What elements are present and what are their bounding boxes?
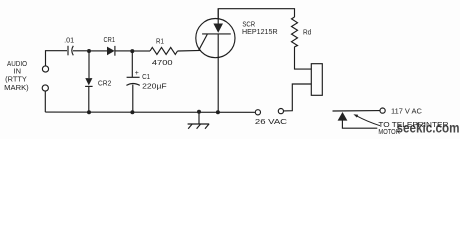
node: TO TELEPRINTER MOTOR label [378, 122, 448, 136]
junction node C1 bottom [130, 110, 134, 114]
junction node at CR2 top [87, 49, 91, 53]
resistor R1 [150, 38, 178, 67]
svg-text:MARK): MARK) [4, 85, 28, 92]
svg-text:R1: R1 [156, 38, 164, 45]
capacitor C1 220uF [126, 51, 166, 112]
svg-text:Rd: Rd [303, 27, 311, 36]
svg-text:117 V AC: 117 V AC [391, 108, 422, 115]
wire: CR2 node to CR1 [91, 50, 107, 52]
svg-text:CR2: CR2 [98, 80, 112, 87]
diode CR2 [85, 51, 111, 112]
resistor Rd [292, 17, 312, 47]
wire: plug bottom prong to 26VAC right terminal [284, 84, 312, 111]
diode CR1 [104, 37, 116, 56]
junction node at C1 top [130, 49, 134, 53]
node: audio input label [4, 61, 28, 92]
terminal: 26 VAC right [278, 109, 283, 114]
terminal: 26 VAC left [255, 110, 260, 115]
svg-text:4700: 4700 [152, 58, 173, 67]
ground symbol [188, 112, 210, 129]
svg-text:IN: IN [14, 68, 22, 75]
wire: SCR anode top to Rd [218, 9, 294, 19]
wire: 117VAC line [333, 110, 381, 112]
arrow: thin leader to wire [353, 114, 380, 125]
connector plug body [311, 64, 322, 96]
wire: Rd to plug top prong [295, 47, 312, 69]
svg-text:AUDIO: AUDIO [7, 61, 27, 68]
SCR U1 HEP1215R [196, 9, 278, 112]
terminal: 117 VAC [380, 108, 385, 113]
svg-text:seekic.com: seekic.com [397, 121, 460, 136]
wire: input top to capacitor [46, 51, 68, 66]
svg-text:HEP1215R: HEP1215R [242, 27, 278, 36]
wire: capacitor to CR2 node [73, 50, 87, 52]
arrow: to teleprinter motor (filled) [338, 112, 378, 128]
wire: CR1 to C1 node [115, 50, 131, 52]
wire: C1 node to R1 [134, 50, 150, 52]
svg-text:(RTTY: (RTTY [5, 77, 27, 84]
capacitor C2 value .01 [64, 37, 74, 55]
svg-text:CR1: CR1 [104, 37, 116, 44]
ground bus wire [45, 111, 255, 113]
svg-text:C1: C1 [142, 74, 150, 81]
wire: R1 to SCR gate [178, 49, 202, 52]
junction node ground tap [197, 110, 201, 114]
junction node SCR cathode bottom [216, 110, 220, 114]
svg-text:.01: .01 [64, 37, 74, 44]
terminal: audio input bottom [42, 85, 48, 91]
svg-text:+: + [135, 70, 139, 77]
wire: input bottom to ground bus [44, 91, 46, 112]
svg-text:220µF: 220µF [142, 84, 167, 91]
junction node CR2 bottom [87, 110, 91, 114]
terminal: audio input top [42, 66, 48, 72]
svg-text:26 VAC: 26 VAC [255, 117, 288, 126]
